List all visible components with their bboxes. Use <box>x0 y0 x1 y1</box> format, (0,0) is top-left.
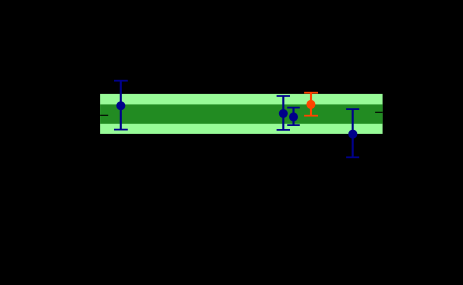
marker point 2 (blue circle) <box>279 109 288 118</box>
marker point 4 (orange circle) <box>306 100 315 109</box>
right axis tick <box>375 112 383 113</box>
marker point 1 (blue circle) <box>116 101 125 110</box>
error bar point 4 (orange) <box>304 93 318 116</box>
marker point 5 (blue circle) <box>348 130 357 139</box>
left axis tick <box>100 115 108 116</box>
error bar point 5 (blue, right) <box>346 109 359 157</box>
error bar point 1 (blue, left) <box>114 81 128 130</box>
error bar point 3 (blue, middle) <box>287 108 300 126</box>
light green average band (outer) <box>100 94 383 134</box>
marker point 3 (blue circle) <box>289 112 298 121</box>
error bar point 2 (blue, middle-left) <box>277 96 290 130</box>
dark green average band (inner) <box>100 104 383 123</box>
